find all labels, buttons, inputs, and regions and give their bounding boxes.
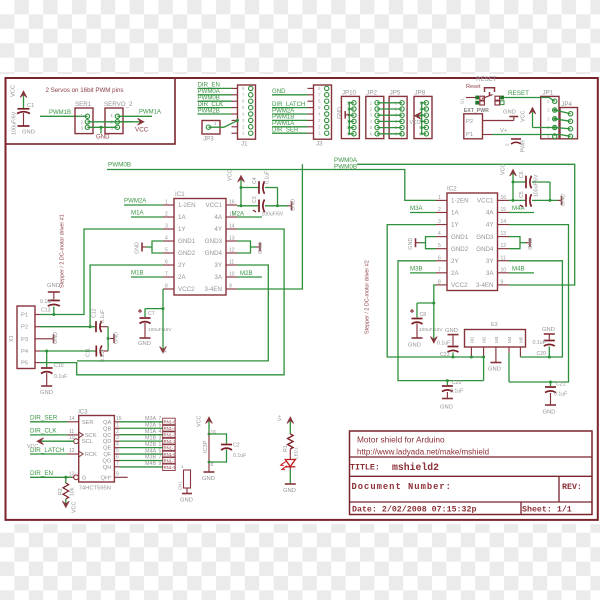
wire DIR_EN to J1 [198,87,232,89]
connector JP3 [202,121,220,143]
svg-text:GND: GND [96,134,110,141]
svg-text:DIR_SER: DIR_SER [30,415,58,422]
svg-text:DIR_CLK: DIR_CLK [30,428,57,435]
svg-text:C7: C7 [148,311,155,317]
svg-text:7: 7 [165,272,168,278]
svg-text:3Y: 3Y [486,258,494,265]
wire M2B to RN1-1 [120,447,163,449]
svg-text:1: 1 [165,200,168,206]
pin 13 G [68,471,87,481]
svg-text:DIR_EN: DIR_EN [30,470,54,477]
schematic frame [6,78,598,520]
svg-text:GND: GND [202,476,215,482]
net tag RN1-5 [163,450,177,457]
svg-text:GND: GND [528,238,534,250]
svg-text:GND: GND [114,332,120,344]
svg-text:4Y: 4Y [486,222,494,229]
wire M4A to RN1-5 [120,453,163,455]
wire M4B from IC2.10 [509,272,534,274]
connector SER1 [75,101,93,134]
svg-text:0.1uF: 0.1uF [437,341,450,347]
svg-text:RN1-2: RN1-2 [164,439,177,444]
svg-text:PWM1A: PWM1A [139,110,161,116]
svg-text:P2: P2 [466,119,473,125]
svg-text:2: 2 [116,429,119,435]
capacitor C12 [89,308,109,332]
svg-text:QH*: QH* [100,475,112,481]
svg-text:J1: J1 [241,141,248,148]
svg-text:mshield2: mshield2 [392,462,439,473]
svg-text:1: 1 [181,464,184,470]
svg-text:C2: C2 [233,443,240,449]
svg-text:GND: GND [22,130,35,136]
svg-text:P5: P5 [21,361,28,367]
svg-text:RESET: RESET [508,90,529,97]
title block [350,431,593,515]
svg-text:GND: GND [561,194,567,206]
connector J1 [232,85,256,148]
svg-text:PWM1B: PWM1B [49,110,71,116]
svg-text:Reset: Reset [466,84,481,90]
wire PWM2A to J3 [272,113,308,115]
svg-text:13: 13 [501,231,507,237]
svg-text:GND: GND [542,327,555,333]
net tag RN1-4 [163,425,177,432]
svg-text:VCC: VCC [228,170,234,181]
wire M1B to IC1.7 [131,276,163,278]
terminal block E3 [465,322,526,347]
pin 5 QF [103,448,119,458]
svg-text:GND2: GND2 [178,250,196,257]
svg-text:M1: M1 [469,336,474,343]
svg-text:C11: C11 [86,348,92,357]
wire E3.1 to 1Y net [470,347,472,357]
power VCC arrow (JP8) [419,115,422,117]
wire IC1 GND1/GND2 bracket [152,241,163,253]
svg-text:GND: GND [503,110,516,116]
power V+ arrow down (left) [160,309,169,353]
wire M2A to RN1-4 [120,427,163,429]
svg-text:4A: 4A [214,214,222,221]
svg-text:M1B: M1B [131,270,144,277]
wire E3.2 to 2Y net [483,347,485,357]
svg-text:X1: X1 [9,335,15,342]
svg-text:1: 1 [116,422,119,428]
svg-text:SCK: SCK [85,433,97,439]
svg-text:3Y: 3Y [214,262,222,269]
svg-text:GND2: GND2 [451,246,469,253]
capacitor C7 [138,309,172,347]
wire DIR_LATCH [30,453,68,455]
net tag RN1-6 [163,418,177,425]
svg-text:SER1: SER1 [75,101,92,108]
terminal block X1 [9,306,40,369]
svg-text:5: 5 [165,248,168,254]
svg-text:1: 1 [159,442,162,448]
svg-text:VCC: VCC [197,416,203,427]
capacitor C22 [440,380,463,411]
wire DIR_SER to J3 [272,132,308,134]
svg-text:V+: V+ [500,128,508,134]
pin 6 QG [102,455,119,465]
power VCC arrow down (R2) [62,499,77,513]
svg-text:7: 7 [438,267,441,273]
svg-text:2A: 2A [451,270,459,277]
svg-text:GND: GND [47,283,60,289]
wire PWM0A from IC1 pin9 [237,164,302,289]
capacitor C13 [40,283,60,315]
svg-text:1-2EN: 1-2EN [178,202,196,209]
capacitor C5 [509,174,558,207]
svg-text:12: 12 [69,448,75,454]
connector JP4 [560,101,578,139]
wire E3.5 to C20 net [519,347,521,357]
wire P4 row [40,350,96,352]
wire C4 to C3 junction [277,188,279,206]
svg-text:GND: GND [488,367,501,373]
svg-text:3: 3 [165,224,168,230]
svg-text:11: 11 [69,429,74,435]
svg-text:R2: R2 [58,488,64,495]
switch S1 Reset [460,84,505,105]
svg-text:GND3: GND3 [476,234,494,241]
wire IC2.14 (4Y) to E3.4/C21 [509,225,569,382]
wire DIR_LATCH to J3 [272,107,308,109]
svg-text:8: 8 [165,284,168,290]
svg-text:RN1-6: RN1-6 [164,420,177,425]
svg-text:GND: GND [180,498,193,504]
svg-text:GND4: GND4 [476,246,494,253]
wire IC1.11 (3Y) to P5 net [77,265,268,361]
svg-text:P1: P1 [21,313,28,319]
svg-text:2Y: 2Y [451,258,459,265]
svg-text:RN1-5: RN1-5 [164,452,177,457]
connector JP1 [541,90,559,139]
svg-text:VCC: VCC [521,111,527,122]
svg-text:VCC: VCC [72,502,78,513]
svg-text:M4B: M4B [145,461,156,467]
svg-text:0.1uF: 0.1uF [265,171,271,184]
ground GND (IC2 right) [526,238,534,250]
svg-text:C21: C21 [556,382,566,388]
svg-text:JP10: JP10 [342,90,357,97]
wire DIR_SER [30,421,68,423]
svg-text:12: 12 [501,243,507,249]
svg-text:GND: GND [408,343,421,349]
wire IC2 GND1/GND2 bracket [426,237,437,249]
svg-text:15: 15 [501,207,507,213]
svg-text:IC2: IC2 [447,186,457,193]
svg-text:VCC: VCC [11,85,17,97]
power VCC arrow (servo) [117,121,140,123]
svg-text:JP5: JP5 [390,90,401,97]
power V+ arrow down (right) [433,303,435,339]
svg-text:100uF/16V: 100uF/16V [148,327,172,333]
svg-text:M4A: M4A [145,448,156,454]
op-amp U IC1 L293D motor driver [163,191,237,295]
svg-text:M3B: M3B [410,266,423,273]
wire VCC junctions (IC1) [240,186,243,189]
wire SERVO_2.1 PWM1A [117,115,152,117]
svg-text:0.1uF: 0.1uF [54,374,67,380]
svg-text:GND: GND [337,107,343,119]
svg-text:G: G [82,475,87,481]
wire M3B to IC2.7 [410,272,436,274]
svg-text:4A: 4A [486,210,494,217]
svg-text:VCC1: VCC1 [205,202,222,209]
svg-text:10: 10 [229,272,235,278]
svg-text:C12: C12 [92,308,98,318]
ground GND (P3) [50,332,60,344]
svg-text:Stepper / 2 DC-motor driver #2: Stepper / 2 DC-motor driver #2 [365,260,371,334]
resistor R2 [58,477,76,499]
svg-text:1Y: 1Y [178,226,186,233]
svg-text:SCL: SCL [82,439,94,445]
svg-text:GND: GND [135,242,141,254]
wire M2B from IC1.10 [237,276,262,278]
ground GND (EXT_PWR) [503,110,518,121]
svg-text:5: 5 [159,448,162,454]
svg-text:M4B: M4B [512,266,525,273]
net tag RN1-1 [163,444,177,451]
svg-text:16: 16 [229,200,235,206]
svg-text:QC: QC [103,433,112,439]
svg-text:EXT_PWR: EXT_PWR [464,108,489,114]
svg-text:C20: C20 [537,351,547,357]
wire M1B to RN1-2 [120,440,163,442]
svg-text:GND: GND [408,238,414,250]
svg-text:4: 4 [165,236,168,242]
wire SER1.3 to SERVO_2.3 [87,126,117,128]
svg-text:PWM0B: PWM0B [108,161,131,168]
svg-text:P2: P2 [21,325,28,331]
wire PWM0B long net [107,170,436,201]
capacitor C2 [208,433,247,464]
svg-text:2: 2 [438,207,441,213]
svg-text:3: 3 [159,435,162,441]
pin 9 QH' [100,471,127,481]
svg-text:C6: C6 [519,171,525,178]
ground GND (C12/C11) [110,332,120,344]
wire IC2 GND3/GND4 bracket [509,237,520,249]
svg-text:SER: SER [82,420,94,426]
capacitor C21 [543,382,568,416]
wire IC2.6 (2Y) to E3.2 [398,261,484,381]
svg-text:9: 9 [159,461,162,467]
svg-text:C8: C8 [420,312,427,318]
svg-text:QD: QD [103,439,112,445]
capacitor C6 [513,171,550,188]
wire PWM1B to SER1 [40,115,87,117]
svg-text:Date: 2/02/2008 07:15:32p: Date: 2/02/2008 07:15:32p [352,505,476,515]
svg-text:3A: 3A [486,270,494,277]
wire IC2.11 (3Y) to E3.5/C20 [509,261,562,357]
ground GND (IC1 left) [135,242,147,254]
svg-text:Sheet: 1/1: Sheet: 1/1 [522,505,572,515]
svg-text:3: 3 [116,435,119,441]
svg-text:VCC: VCC [501,164,507,175]
svg-text:C4: C4 [252,177,258,184]
wire RESET net [504,97,541,99]
pin 4 QE [103,442,119,452]
svg-text:10k: 10k [70,487,76,496]
svg-text:CN1: CN1 [178,481,183,490]
capacitor C23 [437,328,459,358]
wire P2 to GND [483,120,514,122]
svg-text:GND: GND [53,332,59,344]
wire GND to J3 [272,94,308,96]
svg-text:7: 7 [116,461,119,467]
wire DIR_CLK to J1 [198,107,232,109]
svg-text:LED1: LED1 [294,447,300,459]
net tag RN1-2 [163,438,177,445]
wire JP3 to J1 pin6 [209,120,238,127]
wire PWM2A to IC1.1 [124,204,163,206]
svg-text:10: 10 [501,267,507,273]
svg-text:VCC: VCC [135,127,149,134]
svg-text:IC3: IC3 [78,410,88,416]
svg-text:13: 13 [69,471,75,477]
wire C12/C11 to GND [107,327,109,351]
svg-text:C3: C3 [252,196,258,203]
pin 10 SCL [68,435,94,445]
svg-text:GND4: GND4 [205,250,223,257]
ground GND (IC3P) [202,468,215,482]
svg-text:2Y: 2Y [178,262,186,269]
svg-text:0.1uF: 0.1uF [100,310,106,323]
resistor R1 [283,434,293,459]
power VCC arrow (IC1) [228,170,245,206]
svg-text:4: 4 [116,442,119,448]
svg-text:M3B: M3B [145,455,156,461]
wire M4A from IC2.15 [509,212,534,214]
svg-text:QH: QH [103,465,112,471]
svg-text:16: 16 [211,430,217,436]
wire M4B to RN1-9 [120,466,163,468]
svg-text:RN1-9: RN1-9 [164,465,177,470]
svg-text:M5: M5 [518,336,523,343]
pin 12 RCK [68,448,98,458]
svg-text:RN1-7: RN1-7 [164,458,177,463]
op-amp U IC2 L293D motor driver [436,186,509,291]
pin 11 SCK [68,429,97,439]
svg-text:C10: C10 [54,363,64,369]
connector SERVO_2 [104,101,133,134]
capacitor C8 [408,303,443,349]
svg-text:GND1: GND1 [178,238,196,245]
svg-text:0.1uF: 0.1uF [533,340,546,346]
svg-text:TITLE:: TITLE: [350,464,380,473]
svg-text:M3A: M3A [145,416,156,422]
net tag RN1-7 [163,457,177,464]
svg-text:GND: GND [258,242,264,254]
svg-text:C5: C5 [519,191,525,198]
svg-text:GND: GND [138,341,151,347]
svg-text:74HCT595N: 74HCT595N [79,486,111,492]
svg-text:IC1: IC1 [175,191,185,198]
svg-text:RESET: RESET [476,76,497,83]
capacitor C3 [237,196,288,217]
svg-text:Motor shield for Arduino: Motor shield for Arduino [357,435,445,445]
wire M3A to IC2.2 [410,212,436,214]
svg-text:12: 12 [229,248,235,254]
svg-text:QE: QE [103,446,112,452]
wire PWM0B to J1 [198,100,232,102]
wire PWM1B to J3 [272,119,308,121]
svg-text:R1: R1 [283,445,289,452]
svg-text:0.1uF: 0.1uF [100,349,106,362]
capacitor C10 [40,351,67,396]
svg-text:M1B: M1B [145,435,156,441]
wire DIR_CLK [30,434,68,436]
connector EXT_PWR [464,108,489,139]
pin 7 QH [103,461,120,471]
svg-text:C22: C22 [452,380,462,386]
svg-text:E3: E3 [491,322,498,328]
wire IC1.8 VCC2 down [145,289,163,309]
wire SER1.2 to VCC arrow [87,121,132,123]
wire PWM1A to J3 [272,126,308,128]
svg-text:RCK: RCK [85,452,97,458]
ground GND (IC1 right) [256,242,264,254]
svg-text:1Y: 1Y [451,222,459,229]
svg-text:GND3: GND3 [205,238,223,245]
svg-text:9: 9 [229,284,232,290]
wire E3.3 to GND [495,347,497,362]
wire PWM0A to J1 [198,94,232,96]
svg-text:REV:: REV: [562,483,582,492]
capacitor C20 [533,327,555,357]
power VCC arrow (SCL) [27,438,74,450]
pin 1 QB [103,422,119,432]
wire IC1 GND3/GND4 bracket [237,241,251,253]
svg-text:6: 6 [116,455,119,461]
svg-text:M2A: M2A [145,422,156,428]
pin 2 QC [103,429,120,439]
connector CN1 single pin [178,464,193,504]
svg-text:M2B: M2B [240,270,253,277]
svg-text:2 Servos on 16bit PWM pins: 2 Servos on 16bit PWM pins [45,87,123,94]
wire PWM2B to J1 [198,113,232,115]
wire P5 to IC1.14 (4Y) [40,229,284,375]
svg-text:QF: QF [103,452,112,458]
connector JP8 [414,90,432,139]
connector JP10 [341,90,359,139]
wire RESET to JP1.1 [541,98,555,102]
svg-text:11: 11 [229,260,234,266]
svg-text:9: 9 [116,471,119,477]
svg-text:M4A: M4A [512,205,525,212]
svg-text:VCC: VCC [410,120,421,126]
shift register IC3 74HCT595N [78,410,114,492]
svg-text:C13: C13 [41,308,51,314]
svg-text:VCC2: VCC2 [178,286,195,293]
svg-text:3: 3 [438,219,441,225]
wire M1A to IC1.2 [131,216,163,218]
svg-text:GND: GND [291,199,297,211]
svg-text:1A: 1A [178,214,186,221]
wire V+ row [483,134,493,136]
power VCC arrow (JP1 row) [521,108,536,128]
svg-text:4Y: 4Y [214,226,222,233]
svg-text:10: 10 [69,435,75,441]
svg-text:P4: P4 [21,349,29,355]
svg-text:3-4EN: 3-4EN [204,286,222,293]
svg-text:11: 11 [501,255,506,261]
svg-text:JP2: JP2 [366,90,377,97]
power VCC arrow (IC2) [501,164,517,201]
svg-text:GND: GND [272,88,286,95]
